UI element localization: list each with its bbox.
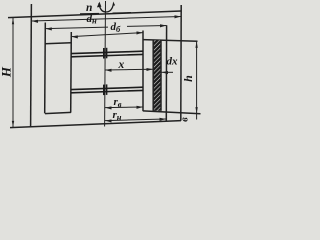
lower pipe (double line) [71, 87, 143, 93]
axis centerline [104, 1, 107, 127]
lower pipe break marks at axis [104, 84, 107, 95]
dimension h (vertical, right) [195, 41, 197, 119]
svg-text:n: n [86, 2, 92, 14]
right liquid free-surface line [142, 31, 144, 112]
dimension x [105, 68, 153, 72]
left liquid box top [45, 43, 71, 44]
svg-text:в: в [180, 117, 191, 122]
paper background [0, 0, 207, 138]
drum top rim line with left extension for H [8, 11, 181, 18]
svg-text:H: H [0, 66, 14, 78]
dimension H (vertical, left) [12, 18, 14, 128]
svg-text:x: x [118, 59, 125, 71]
drum bottom line [10, 121, 181, 128]
dimension of free surface (unlabelled) [71, 31, 143, 38]
right liquid box bottom with h extension [143, 111, 201, 114]
left inner wall line (d_b extension) [44, 23, 47, 114]
rotation symbol (speed n) [80, 2, 131, 14]
svg-text:dx: dx [167, 56, 179, 68]
svg-text:dн: dн [87, 13, 98, 26]
right outer wall [180, 5, 182, 121]
svg-text:h: h [181, 75, 195, 82]
left liquid free-surface line [70, 32, 73, 113]
dimension d_b (drum inner diameter) [45, 24, 166, 30]
elementary ring dx hatched strip [153, 40, 161, 111]
left liquid box bottom [45, 112, 71, 113]
dimension r_v (inner radius) [105, 106, 143, 110]
dx right arrow [162, 71, 174, 74]
upper pipe (double line) [71, 51, 143, 57]
right liquid box top with h extension [143, 40, 198, 42]
left outer wall [30, 4, 33, 127]
dimension r_n (outer radius) [105, 118, 166, 123]
right inner wall line (d_b extension) [165, 25, 167, 121]
upper pipe break marks at axis [104, 48, 107, 59]
dimension d_n (outer diameter) [32, 15, 182, 23]
